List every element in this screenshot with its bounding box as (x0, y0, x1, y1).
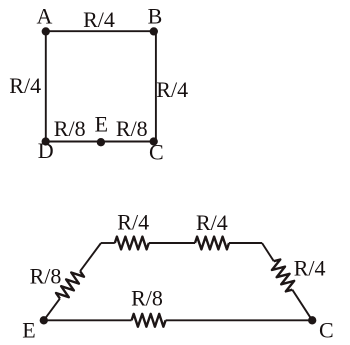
svg-text:E: E (22, 318, 35, 341)
svg-text:R/8: R/8 (116, 116, 148, 141)
svg-text:D: D (38, 138, 54, 163)
wire A-D (left side of square) (45, 31, 47, 141)
wire E-C (bottom right segment) (101, 141, 156, 143)
wire top-left corner to first R/4 resistor (101, 242, 115, 244)
node E (bottom figure junction dot) (40, 316, 48, 324)
svg-text:C: C (319, 317, 334, 340)
wire resistor R/8 to top-left corner (80, 243, 101, 271)
svg-text:R/4: R/4 (156, 77, 188, 102)
svg-text:B: B (148, 3, 163, 28)
svg-text:A: A (36, 3, 52, 28)
resistor R/4 (second, on top wire) (195, 237, 229, 250)
node C (bottom figure junction dot) (308, 316, 316, 324)
node B (junction dot) (150, 27, 158, 35)
resistor R/4 (right diagonal zigzag) (272, 260, 294, 292)
resistor R/8 (left diagonal zigzag) (56, 271, 84, 298)
node E (junction dot) (97, 138, 105, 146)
wire resistor R/4 to node C (292, 290, 312, 321)
svg-text:E: E (95, 112, 108, 137)
node D (junction dot) (42, 137, 50, 145)
wire D-E (bottom left segment) (46, 141, 101, 143)
svg-text:R/4: R/4 (117, 210, 149, 235)
wire E to resistor R/8 (lower part of left diagonal) (44, 299, 60, 321)
resistor R/4 (first, on top wire) (115, 237, 149, 250)
svg-text:R/8: R/8 (30, 264, 62, 289)
node A (junction dot) (42, 27, 50, 35)
wire second R/4 resistor to top-right corner (229, 242, 262, 244)
svg-text:R/4: R/4 (83, 7, 115, 32)
resistor R/8 (bottom wire zigzag) (132, 314, 166, 327)
svg-text:C: C (149, 139, 164, 164)
wire E to bottom R/8 resistor (44, 319, 132, 321)
svg-text:R/4: R/4 (196, 210, 228, 235)
wire A-B (top side of square) (46, 30, 156, 32)
wire B-C (right side of square) (155, 31, 157, 141)
svg-text:R/8: R/8 (131, 286, 163, 311)
svg-text:R/4: R/4 (9, 73, 41, 98)
svg-text:R/4: R/4 (294, 256, 326, 281)
wire between the two R/4 resistors (149, 242, 195, 244)
wire bottom R/8 resistor to node C (166, 319, 313, 321)
svg-text:R/8: R/8 (54, 116, 86, 141)
node C (junction dot) (150, 137, 158, 145)
wire top-right corner to resistor R/4 (upper part of right diagonal) (262, 243, 274, 261)
